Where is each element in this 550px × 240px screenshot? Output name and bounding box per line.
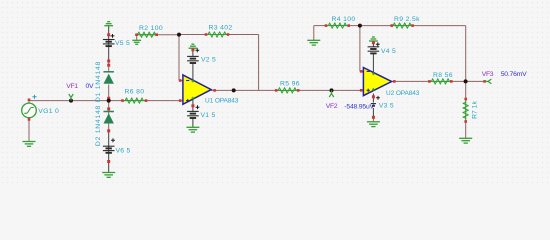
ground below V6 xyxy=(102,173,115,178)
svg-text:U2 OPA843: U2 OPA843 xyxy=(386,90,420,97)
node U1 output junction xyxy=(232,88,236,92)
wire R8 to VF3 xyxy=(451,80,484,82)
resistor R5 xyxy=(275,81,300,94)
plus mark V6 xyxy=(111,138,115,142)
node VF1 junction xyxy=(69,99,73,103)
voltage pin VF3 xyxy=(485,79,492,84)
wire U2 V- to V3 xyxy=(372,94,374,103)
svg-text:U1 OPA843: U1 OPA843 xyxy=(205,98,239,105)
wire D2 to V6 battery xyxy=(108,131,110,160)
wire loop down xyxy=(258,35,260,91)
plus mark V3 xyxy=(376,96,380,100)
wire R9 to loop corner xyxy=(413,25,466,27)
wire V4 to U2 V+ xyxy=(372,54,374,73)
node VF2 junction xyxy=(330,88,334,92)
battery V3 xyxy=(371,103,394,110)
wire V2 to U1 V+ xyxy=(192,63,194,82)
svg-text:V5 5: V5 5 xyxy=(115,40,130,47)
wire D1-junction-D2 xyxy=(108,85,110,132)
wire feedback to inverting input xyxy=(178,35,180,81)
ground at R2 xyxy=(132,40,141,44)
plus mark V2 xyxy=(195,48,199,52)
battery V5 xyxy=(103,40,130,48)
wire V1 to ground xyxy=(192,118,194,127)
wire R4 left xyxy=(314,25,326,27)
wire VG1 top stem xyxy=(28,99,30,104)
diode D2 1N4148 xyxy=(95,105,114,146)
svg-text:R2 100: R2 100 xyxy=(139,25,163,32)
battery V1 xyxy=(187,111,215,119)
plus mark V5 xyxy=(111,34,115,38)
op-amp U1 xyxy=(183,75,239,105)
op-amp U2 xyxy=(363,68,419,98)
wire loop down to output node xyxy=(465,26,467,82)
wire R2 to junction xyxy=(137,34,180,36)
wire R3 to loop corner xyxy=(228,34,259,36)
wire V2 stem xyxy=(192,48,194,56)
voltage generator VG1 xyxy=(22,95,59,121)
wire R4 ground stem xyxy=(313,26,315,40)
wire main input net xyxy=(29,100,183,102)
svg-text:VF2: VF2 xyxy=(326,103,338,110)
battery V4 xyxy=(368,47,396,55)
svg-text:0V: 0V xyxy=(86,83,94,90)
wire V5 battery pins xyxy=(108,26,110,61)
wire U1 output to R5 xyxy=(211,89,277,91)
ground below V3 xyxy=(367,122,380,127)
ground above V4 xyxy=(369,37,378,41)
resistor R3 xyxy=(205,25,233,38)
wire R4-junction-R9 xyxy=(349,25,392,27)
svg-text:R3 402: R3 402 xyxy=(209,25,233,32)
wire R5 to U2 +input xyxy=(298,89,363,91)
wire output node to R7 xyxy=(465,81,467,99)
diode D1 1N4148 xyxy=(95,61,114,102)
svg-text:VF3: VF3 xyxy=(482,71,494,78)
svg-text:V2 5: V2 5 xyxy=(201,57,216,64)
wire V3 to ground xyxy=(372,117,374,121)
ground below V1 xyxy=(186,127,199,132)
node feedback junction xyxy=(177,33,181,37)
ground at R4 xyxy=(307,40,320,45)
battery V2 xyxy=(187,56,216,63)
svg-text:R7 1k: R7 1k xyxy=(472,101,479,119)
plus mark V1 xyxy=(196,105,200,109)
svg-text:V1 5: V1 5 xyxy=(201,112,216,119)
svg-text:R5 96: R5 96 xyxy=(280,81,300,88)
svg-text:R9 2.5k: R9 2.5k xyxy=(394,16,420,23)
svg-text:VG1 0: VG1 0 xyxy=(38,108,59,115)
resistor R9 xyxy=(390,16,420,28)
svg-text:R4 100: R4 100 xyxy=(332,16,356,23)
svg-text:R6 80: R6 80 xyxy=(125,89,145,96)
voltage pin VF1 xyxy=(69,94,74,101)
wire U1 V- to V1 xyxy=(192,99,194,112)
plus mark V4 xyxy=(376,42,380,46)
svg-text:R8 56: R8 56 xyxy=(433,72,453,79)
node VF3 output junction xyxy=(464,79,468,83)
svg-text:D2 1N4148: D2 1N4148 xyxy=(95,105,102,146)
ground below VG1 xyxy=(23,142,36,147)
wire R2 ground stem xyxy=(136,35,138,40)
ground below R7 xyxy=(459,138,472,143)
wire V5 to D1 xyxy=(108,61,110,72)
svg-text:D1 1N4148: D1 1N4148 xyxy=(95,61,102,102)
svg-text:50.76mV: 50.76mV xyxy=(501,71,527,78)
resistor R8 xyxy=(428,72,453,84)
resistor R6 xyxy=(121,89,147,104)
wire VF2 tap xyxy=(331,89,333,92)
svg-text:V3 5: V3 5 xyxy=(379,103,394,110)
wire V4 stem xyxy=(372,41,374,47)
ground above V2 xyxy=(189,44,198,48)
svg-text:V6 5: V6 5 xyxy=(116,148,131,155)
wire U2 output to R8 xyxy=(392,80,430,82)
svg-text:-548.95uV: -548.95uV xyxy=(344,103,374,110)
wire VG1 bottom stem xyxy=(28,118,30,141)
wire R7 to ground xyxy=(465,122,467,139)
battery V6 xyxy=(103,146,131,154)
svg-text:V4 5: V4 5 xyxy=(381,48,396,55)
resistor R4 xyxy=(325,16,356,28)
ground above V5 xyxy=(104,22,113,26)
wire V6 to ground xyxy=(108,160,110,172)
svg-text:VF1: VF1 xyxy=(66,83,78,90)
node R4/R9 junction xyxy=(358,24,362,28)
wire to U2 inverting input xyxy=(359,26,361,72)
voltage pin VF2 xyxy=(329,90,334,97)
wire V3 pin xyxy=(372,108,374,117)
resistor R2 xyxy=(135,25,163,37)
resistor R7 xyxy=(463,98,479,123)
node diode clamp junction xyxy=(107,99,111,103)
wire junction to R3 xyxy=(179,34,206,36)
